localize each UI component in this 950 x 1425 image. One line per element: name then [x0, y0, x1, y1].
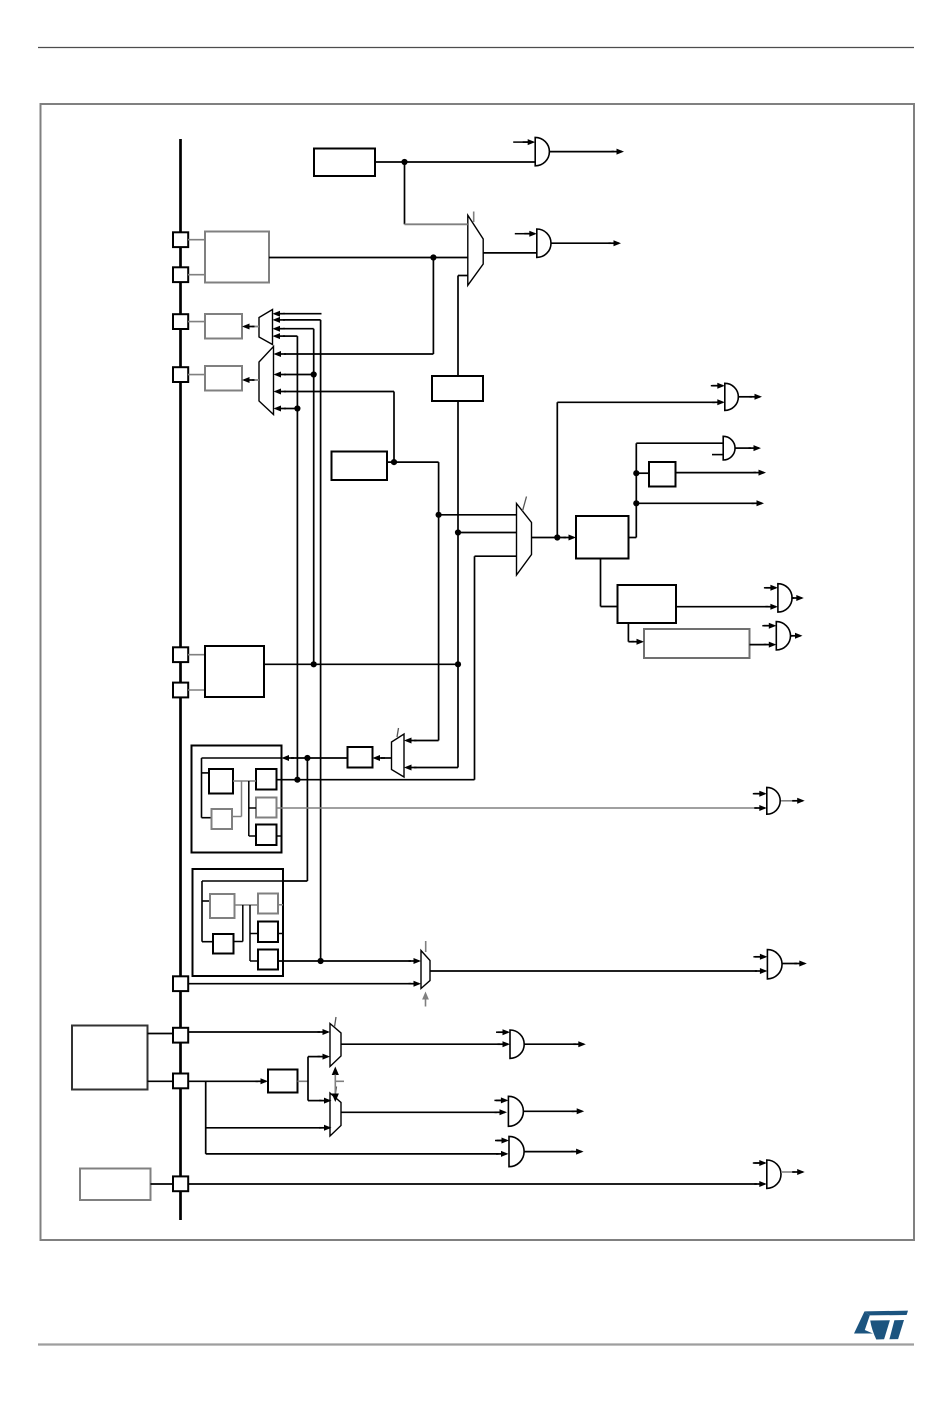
wire B7 bottom to box B9: [600, 559, 602, 607]
wire S1 to CLK box B2: [188, 239, 205, 241]
wire B2 output to mux M4 input 2: [269, 257, 468, 259]
gate G1 enable stub: [711, 385, 718, 387]
PCG2 inner feed line: [202, 880, 283, 882]
wire S6 to CPU divider box: [188, 689, 205, 691]
bus tap square S8: [173, 1028, 188, 1043]
box B11 (CPU divider, two bus taps): [205, 646, 264, 697]
wire mux M8 output to gate G6: [341, 1111, 497, 1113]
gate G8 enable stub: [753, 956, 760, 958]
PCG1 square E output to frame: [277, 835, 282, 837]
mux M1 input 1 (open ended): [283, 313, 322, 315]
box B14 (CSS source box): [268, 1070, 298, 1093]
gate G4 output arrow: [791, 635, 793, 637]
gate G7 enable stub: [495, 1140, 502, 1142]
wire B5 LSI output: [387, 461, 439, 463]
LSI vertical net: [438, 462, 440, 740]
wire branch down to mux M2 input 1: [432, 258, 434, 355]
gate G8 output arrow: [782, 963, 797, 965]
wire bracket to mux M8 input 1: [308, 1100, 322, 1102]
CSS gray stub: [335, 1080, 344, 1082]
wire M2 input 3 riser to LSI line: [393, 392, 395, 463]
wire S4 to box B4: [188, 374, 205, 376]
wire mux M6 output to gate G8: [430, 970, 757, 972]
PCG2 register square C: [258, 922, 278, 943]
wire B14 output: [298, 1080, 309, 1082]
mux M2 input 3 wire: [284, 391, 394, 393]
mux M4 select tick: [473, 212, 475, 223]
box B4: [205, 366, 242, 391]
figure frame: [41, 104, 915, 1240]
register bus (thick vertical line): [179, 139, 182, 1220]
gate G3 enable stub: [764, 587, 771, 589]
gate G9 output arrow: [781, 1171, 795, 1173]
bus tap square S7: [173, 976, 188, 991]
mux M7 select tick: [335, 1017, 337, 1027]
wire HSI into mux M5 input 2: [414, 767, 458, 769]
wire into mux M8 input 2: [206, 1127, 322, 1129]
wire branch down to gate G7: [205, 1081, 207, 1154]
wire PCG2 top line: [283, 880, 307, 882]
PCG2 register square E: [258, 950, 278, 970]
mux M1 output to box B3: [252, 326, 259, 328]
wire mux M3 output to box B7: [532, 537, 567, 539]
gate G6 output arrow: [523, 1110, 574, 1112]
wire fMASTER output arrow: [636, 502, 754, 504]
wire PCG1 square B output: [277, 779, 475, 781]
gate G10 enable stub: [753, 793, 760, 795]
mux M4 (top switch, right-pointing): [468, 215, 483, 285]
wire into mux M2 input 1: [284, 353, 433, 355]
gate T1 output arrow: [550, 151, 614, 153]
PCG1 inner feed line: [202, 757, 282, 759]
CSS switch link down arrow: [332, 1094, 339, 1103]
mux M1 input 4 wire from PCG1 line: [283, 335, 297, 337]
wire PCG2 square E output to mux M6: [278, 960, 411, 962]
gate G2 lower stub: [712, 454, 723, 456]
PCG1 register square D: [212, 809, 233, 829]
CSS switch link up arrow: [332, 1067, 339, 1076]
gate G6 body: [508, 1096, 523, 1126]
PCG1 internal wires: [233, 780, 256, 782]
ST logo: [854, 1311, 908, 1340]
gate G8 body: [767, 950, 782, 979]
gate G7 body: [509, 1136, 524, 1166]
wire long run to gate G7: [206, 1153, 499, 1155]
box B7 (master clock prescaler): [576, 516, 629, 559]
wire B9 bottom to box B10: [627, 623, 629, 642]
junction node LSI to mux M3 input A: [436, 512, 442, 518]
wire branch down to mux M4 input 1: [404, 162, 406, 224]
bus tap square S2: [173, 267, 188, 282]
mux M5 select tick: [397, 728, 399, 737]
mux M2 input 2 wire: [284, 374, 314, 376]
mux M2 output to box B4: [252, 379, 259, 381]
gate G5 body: [510, 1030, 524, 1058]
bus tap square S3: [173, 314, 188, 329]
wire into mux M3 input C: [475, 555, 517, 557]
gate G7 output arrow: [524, 1151, 573, 1153]
mux M7 (CSS switch upper, right-pointing): [330, 1024, 341, 1067]
CSS switch link shaft: [334, 1075, 336, 1095]
junction node HSI to mux M3 input B: [455, 529, 461, 535]
wire into box B8: [636, 472, 649, 474]
PCG2 register square D: [213, 934, 234, 954]
wire mux M4 input 3 riser: [457, 276, 459, 377]
wire B13 to S9: [148, 1080, 174, 1082]
junction node fPER1 / M2 input 4: [294, 405, 300, 411]
junction node on B2 output: [430, 254, 436, 260]
PCG1 register square C: [256, 798, 277, 818]
gate G6 enable stub: [494, 1099, 501, 1101]
junction node PCG feed: [304, 755, 310, 761]
mux M1 input 2 wire from PCG2 line: [283, 319, 321, 321]
junction node on B1 output: [401, 159, 407, 165]
box B15 (bottom oscillator box): [80, 1169, 151, 1201]
box B2 (clock control, two bus taps): [205, 232, 269, 283]
gate G5 output arrow: [524, 1043, 576, 1045]
wire mux M7 output to gate G5: [341, 1043, 500, 1045]
wire CPU divider output: [264, 663, 458, 665]
gate T1 enable stub: [513, 141, 528, 143]
mux M2 (left-pointing): [259, 347, 274, 415]
PCG1 register square A: [209, 769, 233, 794]
gate G10 body: [767, 787, 780, 814]
wire B15 to S10: [151, 1183, 174, 1185]
bus tap square S5: [173, 647, 188, 662]
junction node LSI to M2: [391, 459, 397, 465]
peripheral clock gating block PCG2 outer box: [193, 869, 284, 976]
wire mux M5 output to box B12: [381, 757, 392, 759]
gate G10 output arrow: [781, 800, 795, 802]
bus tap square S6: [173, 683, 188, 698]
PCG1 register square B: [256, 769, 277, 790]
box B6 (HSI divider): [432, 376, 483, 401]
wire S5 to CPU divider box: [188, 654, 205, 656]
box B9 (divider): [618, 585, 677, 623]
wire B1 output to gate T1: [375, 161, 535, 163]
junction node to B8: [633, 470, 639, 476]
wire into gate G2: [636, 442, 723, 444]
wire B8 output arrow: [676, 472, 757, 474]
junction node fCPU / M2 input 2: [311, 371, 317, 377]
mux M6 select stub: [425, 995, 427, 1007]
junction node HSI / CPU line: [455, 661, 461, 667]
box B8 (small gate box): [649, 462, 676, 487]
mux M8 (CSS switch lower, right-pointing): [330, 1093, 341, 1136]
wire S3 to box B3: [188, 321, 205, 323]
junction node fPER2 end: [318, 958, 324, 964]
gate G4 body: [776, 622, 790, 650]
bus tap square S10: [173, 1176, 188, 1191]
gate G4 enable stub: [762, 625, 769, 627]
gate G3 output arrow: [792, 597, 794, 599]
gate T2 output arrow: [551, 242, 611, 244]
wire S7 to mux M6 input 2: [188, 983, 411, 985]
bus tap square S4: [173, 367, 188, 382]
long vertical net fPER2: [320, 320, 322, 961]
wire B10 output to gate G4: [750, 644, 767, 646]
mux M1 input 3 wire from CPU divider: [283, 328, 314, 330]
PCG2 feed riser: [306, 758, 308, 881]
mux M6 select tick: [425, 941, 427, 952]
box B13 (bottom-left option bytes box): [72, 1026, 148, 1090]
gate G3 body: [778, 584, 792, 612]
gate G1 body: [725, 383, 739, 410]
peripheral clock gating block PCG1 outer box: [192, 746, 282, 853]
mux M5 (peripheral source, left-pointing): [392, 734, 405, 777]
CSS feed bracket: [307, 1057, 309, 1101]
gate G9 enable stub: [753, 1162, 760, 1164]
mux M3 select tick: [523, 497, 527, 512]
wire B13 to S8: [148, 1033, 174, 1035]
junction node on M3 output: [554, 534, 560, 540]
gate G9 body: [767, 1160, 781, 1188]
PCG2 square B output to frame: [278, 904, 283, 906]
gate G10 main input arrow: [759, 805, 767, 811]
gray peripheral wire to gate G10: [277, 807, 758, 809]
box B10 (long register box): [644, 629, 750, 658]
gate T2 enable stub: [515, 233, 530, 235]
junction node fPER1 end: [294, 777, 300, 783]
wire S8 to mux M7 input 1: [188, 1031, 320, 1033]
wire LSI into mux M3 input A: [439, 514, 517, 516]
box B3: [205, 314, 242, 339]
fMASTER return vertical net: [474, 556, 476, 780]
gate G1 output arrow: [739, 396, 752, 398]
PCG2 register square B: [258, 894, 278, 914]
junction node fCPU net: [311, 661, 317, 667]
bus tap square S9: [173, 1074, 188, 1089]
box B1 (top oscillator): [314, 149, 375, 177]
wire S10 long run to gate G9: [188, 1183, 757, 1185]
PCG2 internal wires: [235, 904, 259, 906]
wire B12 output to PCG1: [291, 757, 348, 759]
wire HSI into mux M3 input B: [458, 532, 517, 534]
wire B9 output to gate G3: [676, 606, 768, 608]
mux M3 (clock source switch, right-pointing): [517, 504, 532, 576]
PCG1 register square E: [256, 825, 277, 846]
wire into mux M4 input 1: [405, 223, 468, 225]
bus tap square S1: [173, 232, 188, 247]
wire bracket to mux M7 input 2: [308, 1056, 320, 1058]
gate G2 output arrow: [735, 447, 751, 449]
box B5 (LSI oscillator): [332, 452, 388, 481]
HSI divided vertical net: [457, 401, 459, 768]
mux M2 input 4 wire: [284, 408, 297, 410]
PCG2 register square A: [210, 894, 235, 918]
mux M6 (right-pointing): [421, 951, 430, 989]
footer rule: [38, 1343, 914, 1345]
mux M8 select tick: [335, 1087, 337, 1097]
gate G5 enable stub: [496, 1031, 503, 1033]
gate G2 body: [723, 436, 735, 460]
wire B7 output: [629, 537, 637, 539]
gate T2 body: [537, 229, 551, 257]
wire S9 to box B14: [188, 1080, 258, 1082]
gate T1 body: [535, 137, 549, 165]
fMASTER distribution riser: [635, 443, 637, 537]
wire LSI into mux M5 input 1: [414, 740, 439, 742]
long vertical net fCPU: [313, 329, 315, 665]
header rule: [38, 47, 914, 49]
box B12 (small box before peripheral mux): [348, 747, 373, 768]
PCG2 square C output to frame: [278, 933, 283, 935]
mux M1 (CCO source selector, left-pointing): [259, 310, 273, 345]
long vertical net fPER1: [296, 336, 298, 780]
junction node to output arrow: [633, 500, 639, 506]
wire riser to gate G1: [556, 402, 558, 537]
wire mux M4 output to gate T2: [483, 252, 537, 254]
wire S2 to CLK box B2: [188, 274, 205, 276]
